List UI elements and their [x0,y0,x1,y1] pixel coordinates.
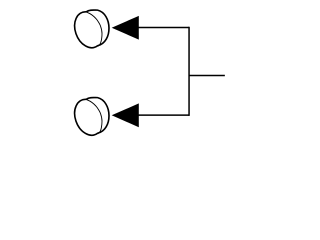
lamp D1 body [75,10,109,48]
LED D2 triangle [112,103,139,127]
lamp D2 body [75,97,109,135]
wire stub right [189,75,225,77]
lamp D2 face rim [86,99,102,134]
wire bottom [138,114,189,116]
lamp D1 face rim [86,12,102,47]
wire vertical bus [188,27,190,116]
LED D1 triangle [112,16,139,40]
wire top [138,27,189,29]
